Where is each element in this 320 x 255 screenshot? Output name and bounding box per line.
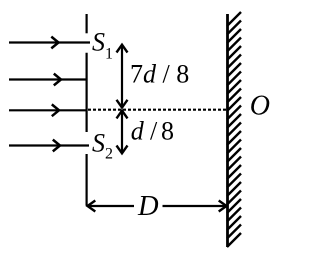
dotted central axis — [88, 109, 226, 111]
svg-text:8: 8 — [161, 117, 174, 146]
screen wall line — [226, 14, 229, 247]
slit barrier top segment — [85, 14, 87, 33]
svg-text:S: S — [92, 28, 105, 57]
label S2 — [92, 128, 113, 162]
screen hatching — [227, 12, 241, 247]
incident ray arrow 4 — [9, 140, 89, 152]
label S1 — [92, 28, 113, 63]
svg-text:O: O — [250, 91, 270, 122]
svg-text:1: 1 — [105, 46, 113, 63]
incident ray arrow 3 — [9, 104, 88, 116]
svg-text:S: S — [92, 128, 105, 157]
label 7d/8 — [130, 60, 189, 89]
vertical dimension arrow 7d/8 — [117, 45, 128, 108]
svg-text:D: D — [137, 191, 159, 222]
slit barrier bottom segment — [85, 154, 87, 206]
svg-text:/: / — [150, 117, 158, 146]
incident ray arrow 1 — [9, 37, 90, 49]
svg-text:7d / 8: 7d / 8 — [130, 60, 189, 89]
D dimension arrow — [88, 201, 227, 212]
svg-text:2: 2 — [105, 146, 113, 163]
slit barrier middle segment — [85, 53, 87, 132]
svg-text:d: d — [131, 117, 145, 146]
vertical dimension arrow d/8 — [117, 111, 128, 154]
label d/8 — [131, 117, 174, 146]
incident ray arrow 2 — [9, 74, 88, 86]
